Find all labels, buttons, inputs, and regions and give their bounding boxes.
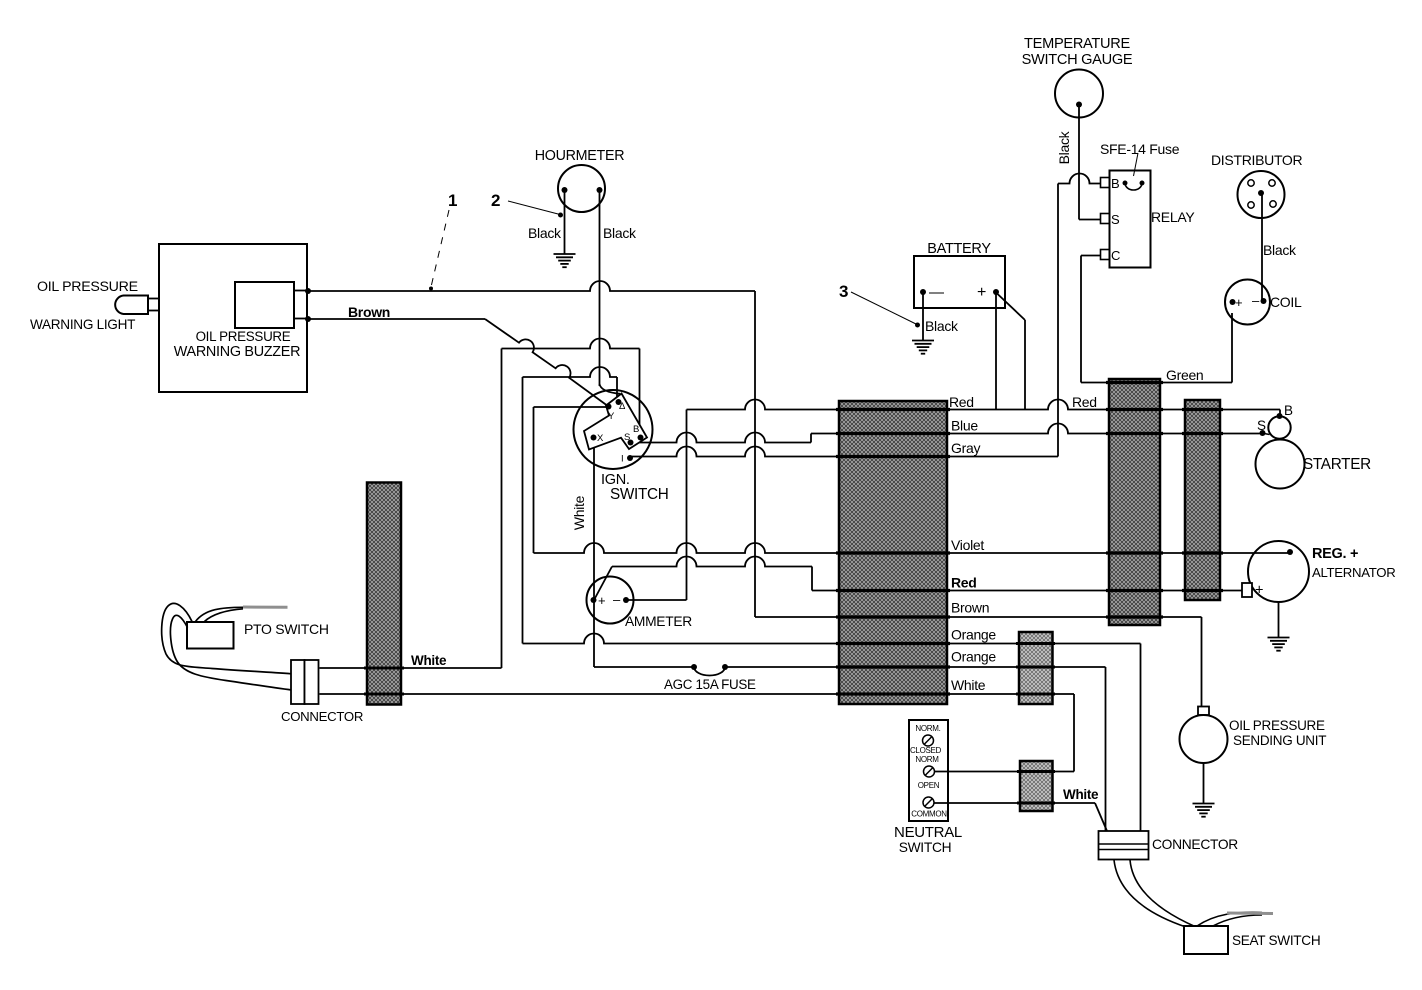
wire ammeter minus riser — [626, 410, 687, 601]
svg-text:White: White — [1063, 787, 1099, 802]
svg-text:SFE-14 Fuse: SFE-14 Fuse — [1100, 141, 1180, 157]
svg-text:White: White — [411, 653, 447, 668]
battery box — [914, 256, 1005, 308]
relay box — [1110, 171, 1151, 268]
seat switch harness tails — [1197, 912, 1273, 926]
label red right — [1072, 394, 1097, 410]
wire segment in tall band y382.5 — [1106, 381, 1163, 384]
svg-text:CLOSED: CLOSED — [910, 746, 942, 755]
svg-text:OPEN: OPEN — [918, 781, 940, 790]
svg-text:CONNECTOR: CONNECTOR — [1152, 837, 1238, 852]
wire red bus — [687, 400, 1281, 417]
svg-text:S: S — [1257, 418, 1266, 433]
label connector bottom — [1152, 837, 1238, 852]
label distributor — [1211, 152, 1303, 168]
svg-text:Violet: Violet — [951, 537, 984, 553]
label seat switch — [1232, 933, 1320, 948]
wire segment in center band y643.5 — [836, 642, 950, 645]
svg-text:+: + — [1255, 583, 1263, 599]
wire harness band (center main) — [839, 401, 947, 704]
wire segment in narrow band y590.5 — [1182, 589, 1223, 592]
wire segment in center band y553 — [836, 551, 950, 554]
wire brown drop to sending unit — [1201, 617, 1203, 707]
label oil pressure sending unit — [1229, 718, 1326, 748]
starter — [1256, 413, 1305, 489]
label neutral switch — [894, 824, 962, 855]
wire gray bus — [630, 447, 1059, 457]
label ign switch — [601, 472, 669, 503]
svg-text:Red: Red — [1072, 394, 1097, 410]
label pto switch — [244, 621, 329, 637]
wire harness band (tall right) — [1109, 379, 1160, 625]
neutral switch screws — [923, 735, 935, 808]
wire harness band (small upper) — [1019, 632, 1053, 704]
wire red ammeter bus — [594, 557, 1242, 601]
oil pressure warning buzzer inner box — [235, 282, 311, 328]
wire gray riser to relay B — [1058, 174, 1101, 457]
ground battery — [912, 341, 934, 354]
svg-text:CONNECTOR: CONNECTOR — [281, 709, 363, 724]
wire ign A terminal loop — [523, 367, 618, 644]
label coil — [1270, 294, 1302, 310]
wire segment in left band y668 — [364, 667, 404, 670]
svg-text:PTO SWITCH: PTO SWITCH — [244, 621, 329, 637]
svg-text:SWITCH GAUGE: SWITCH GAUGE — [1022, 52, 1133, 68]
svg-text:Black: Black — [1056, 130, 1072, 164]
wire blue bus — [631, 424, 1263, 443]
svg-text:Red: Red — [949, 394, 974, 410]
wire segment in upper small band y643.5 — [1016, 642, 1055, 645]
svg-text:Orange: Orange — [951, 649, 996, 665]
label brown band — [951, 600, 989, 616]
label starter — [1303, 456, 1371, 473]
label AGC 15A fuse — [664, 677, 756, 692]
label hourmeter — [535, 148, 624, 164]
wire hourmeter right lead — [600, 190, 621, 394]
svg-text:Black: Black — [1263, 242, 1297, 258]
svg-text:NORM: NORM — [915, 755, 939, 764]
wire segment in tall band y553 — [1106, 551, 1163, 554]
wire segment in narrow band y409.5 — [1182, 408, 1223, 411]
wire harness band (narrow right) — [1185, 400, 1220, 600]
wire segment in lower small band y803 — [1017, 802, 1055, 805]
wire ign Y horizontal — [534, 407, 609, 553]
svg-text:WARNING LIGHT: WARNING LIGHT — [30, 317, 135, 332]
callout 3 — [839, 282, 920, 328]
wire segment in tall band y590.5 — [1106, 589, 1163, 592]
svg-text:OIL PRESSURE: OIL PRESSURE — [37, 279, 138, 295]
wire battery minus ground lead — [922, 292, 924, 340]
label black battery — [925, 318, 959, 334]
label relay — [1151, 209, 1195, 225]
connector bottom — [1099, 831, 1149, 860]
svg-text:HOURMETER: HOURMETER — [535, 148, 624, 164]
wire white neutral switch row — [935, 771, 1075, 773]
svg-text:3: 3 — [839, 282, 848, 301]
ground hourmeter — [554, 254, 576, 267]
wire distributor coil black lead — [1261, 193, 1263, 301]
label brown wire — [348, 304, 390, 320]
svg-text:SEAT SWITCH: SEAT SWITCH — [1232, 933, 1320, 948]
svg-text:SWITCH: SWITCH — [899, 840, 952, 855]
wire segment in center band y667 — [836, 665, 950, 668]
label red — [949, 394, 974, 410]
wire segment in center band y433.5 — [836, 432, 950, 435]
svg-text:Blue: Blue — [951, 418, 978, 434]
label orange 1 — [951, 627, 996, 643]
wire white bus — [320, 693, 1075, 695]
label connector left — [281, 709, 363, 724]
svg-text:Orange: Orange — [951, 627, 996, 643]
starter pin labels — [1257, 403, 1293, 433]
wire harness band (small lower) — [1020, 761, 1053, 811]
svg-text:S: S — [1111, 212, 1120, 227]
wire segment in tall band y433.5 — [1106, 432, 1163, 435]
svg-text:BATTERY: BATTERY — [927, 241, 991, 257]
svg-text:STARTER: STARTER — [1303, 456, 1371, 473]
neutral switch pin labels — [910, 724, 947, 819]
wire segment in upper small band y667 — [1016, 666, 1055, 669]
svg-text:TEMPERATURE: TEMPERATURE — [1024, 36, 1130, 52]
wire segment in left band y694 — [364, 693, 404, 696]
label SFE-14 fuse — [1100, 141, 1180, 176]
battery terminals — [920, 284, 999, 301]
wire brown bus — [755, 616, 1202, 618]
wire ign B to white loop — [320, 339, 640, 668]
svg-text:COMMON: COMMON — [911, 810, 947, 819]
relay terminal S — [1101, 212, 1121, 227]
svg-text:S: S — [624, 432, 630, 443]
label black temp vertical — [1056, 130, 1072, 164]
label gray — [951, 440, 980, 456]
svg-text:SWITCH: SWITCH — [610, 486, 669, 503]
svg-text:—: — — [929, 284, 944, 301]
wire relay C green lead — [1081, 256, 1101, 383]
svg-text:White: White — [951, 677, 986, 693]
wire segment in center band y456.5 — [836, 455, 950, 458]
svg-text:B: B — [1111, 176, 1119, 191]
pto switch box — [187, 622, 234, 649]
svg-text:+: + — [598, 593, 605, 608]
ign switch pin labels — [597, 401, 639, 465]
relay terminal B — [1101, 176, 1120, 191]
svg-text:–: – — [1252, 293, 1260, 308]
connector to seat switch harness — [1114, 860, 1196, 927]
label white left band — [411, 653, 447, 668]
seat switch box — [1184, 926, 1228, 954]
label violet — [951, 537, 984, 553]
svg-text:ALTERNATOR: ALTERNATOR — [1312, 565, 1395, 580]
svg-text:X: X — [597, 433, 604, 444]
label reg alternator — [1312, 546, 1395, 580]
svg-text:AGC 15A FUSE: AGC 15A FUSE — [664, 677, 756, 692]
svg-text:Black: Black — [603, 225, 637, 241]
ground alternator — [1268, 638, 1290, 651]
label black distributor — [1263, 242, 1297, 258]
svg-text:+: + — [1235, 295, 1242, 310]
wire buzzer riser to brown — [754, 291, 756, 617]
svg-text:–: – — [613, 592, 621, 607]
ground sending unit — [1193, 804, 1215, 817]
svg-text:Green: Green — [1166, 367, 1203, 383]
ign switch body — [574, 390, 653, 469]
wire segment in upper small band y694 — [1016, 693, 1055, 696]
relay terminal C — [1101, 248, 1121, 263]
wire battery plus lead — [995, 292, 997, 410]
svg-text:I: I — [621, 454, 623, 465]
wire hourmeter left ground lead — [564, 190, 566, 254]
distributor — [1238, 171, 1285, 218]
svg-text:Y: Y — [608, 411, 615, 422]
svg-text:Δ: Δ — [619, 401, 626, 412]
neutral switch box — [909, 720, 948, 821]
connector left — [291, 660, 319, 704]
temperature switch gauge — [1055, 70, 1103, 118]
label orange 2 — [951, 649, 996, 665]
svg-text:Gray: Gray — [951, 440, 980, 456]
label battery — [927, 241, 991, 257]
svg-text:WARNING BUZZER: WARNING BUZZER — [174, 344, 300, 360]
wire orange bus 1 — [523, 634, 1141, 644]
label ammeter — [625, 614, 692, 629]
wire white common row — [934, 803, 1107, 831]
wire segment in center band y694 — [836, 692, 950, 695]
wire segment in center band y617 — [836, 615, 950, 618]
svg-text:B: B — [1284, 403, 1293, 418]
label oil pressure warning light — [30, 279, 138, 332]
svg-text:OIL PRESSURE: OIL PRESSURE — [1229, 718, 1325, 733]
oil pressure warning light bulb — [115, 296, 159, 315]
svg-text:Black: Black — [528, 225, 562, 241]
label white vertical — [571, 495, 587, 530]
wire alternator ground lead — [1278, 602, 1280, 637]
svg-text:AMMETER: AMMETER — [625, 614, 692, 629]
label temperature switch gauge — [1022, 36, 1133, 68]
wire segment in lower small band y771.5 — [1017, 770, 1055, 773]
oil pressure sending unit — [1180, 707, 1228, 764]
fuse AGC 15A — [691, 664, 728, 676]
coil — [1225, 280, 1270, 325]
wire segment in center band y590.5 — [836, 589, 950, 592]
svg-text:NEUTRAL: NEUTRAL — [894, 824, 962, 841]
wire segment in tall band y617 — [1106, 615, 1163, 618]
oil pressure warning buzzer box — [159, 244, 307, 392]
label red bold — [951, 575, 977, 591]
label green — [1166, 367, 1203, 383]
wire harness band (left) — [367, 483, 401, 705]
svg-text:REG. +: REG. + — [1312, 546, 1358, 562]
wire segment in narrow band y433.5 — [1182, 432, 1223, 435]
svg-text:RELAY: RELAY — [1151, 209, 1195, 225]
svg-text:DISTRIBUTOR: DISTRIBUTOR — [1211, 152, 1303, 168]
callout 1 — [429, 191, 457, 291]
wire sending unit ground lead — [1203, 763, 1205, 803]
fuse SFE-14 — [1123, 181, 1145, 191]
wire orange1 drop to connector — [1140, 644, 1142, 832]
svg-text:SENDING UNIT: SENDING UNIT — [1233, 733, 1326, 748]
label white band — [951, 677, 986, 693]
wire violet bus — [534, 543, 1291, 553]
svg-text:NORM.: NORM. — [915, 724, 940, 733]
label black hourmeter right — [603, 225, 637, 241]
callout 2 — [491, 191, 563, 218]
wire segment in narrow band y553 — [1182, 551, 1223, 554]
svg-text:1: 1 — [448, 191, 457, 210]
svg-text:+: + — [977, 284, 986, 301]
label black hourmeter left — [528, 225, 562, 241]
svg-text:Brown: Brown — [348, 304, 390, 320]
wire ign X white lead — [593, 438, 595, 668]
wire segment in tall band y409.5 — [1106, 408, 1163, 411]
wire segment in center band y409.5 — [836, 408, 950, 411]
alternator — [1242, 541, 1309, 602]
pto switch harness loop — [162, 603, 292, 690]
svg-text:Brown: Brown — [951, 600, 989, 616]
wire battery plus diagonal lead — [997, 293, 1026, 410]
svg-text:2: 2 — [491, 191, 500, 210]
svg-text:COIL: COIL — [1270, 294, 1302, 310]
wire orange bus 2 with fuse — [594, 666, 1106, 668]
svg-text:OIL PRESSURE: OIL PRESSURE — [196, 329, 291, 344]
svg-text:Black: Black — [925, 318, 959, 334]
wire white drop — [1073, 694, 1075, 772]
ammeter gauge — [587, 577, 634, 624]
label oil pressure warning buzzer — [174, 329, 300, 360]
label white bottom — [1063, 787, 1099, 802]
label blue — [951, 418, 978, 434]
wire brown buzzer lead — [308, 319, 609, 407]
wire temp gauge black lead — [1079, 105, 1101, 220]
wire orange2 drop to connector — [1105, 667, 1107, 831]
hourmeter gauge — [558, 165, 605, 212]
svg-text:Red: Red — [951, 575, 977, 591]
svg-text:B: B — [633, 424, 639, 435]
wire buzzer to harness (top horizontal) — [308, 281, 755, 291]
svg-text:White: White — [571, 495, 587, 530]
svg-text:C: C — [1111, 248, 1120, 263]
wire green bus — [1081, 313, 1232, 383]
